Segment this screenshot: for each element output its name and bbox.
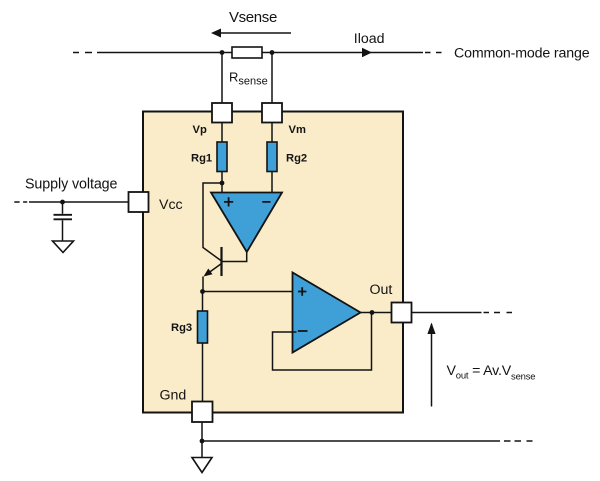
svg-text:Out: Out <box>370 282 393 298</box>
svg-text:Supply voltage: Supply voltage <box>25 177 118 193</box>
svg-text:Vsense: Vsense <box>229 9 277 26</box>
svg-text:Rg2: Rg2 <box>286 153 307 165</box>
svg-text:Rg3: Rg3 <box>171 322 192 334</box>
svg-text:Common-mode range: Common-mode range <box>454 46 590 62</box>
svg-text:Gnd: Gnd <box>160 388 187 404</box>
svg-text:Rg1: Rg1 <box>191 153 212 165</box>
svg-text:Vp: Vp <box>193 124 207 136</box>
svg-text:Vcc: Vcc <box>159 197 183 213</box>
svg-text:Iload: Iload <box>354 31 385 47</box>
svg-text:Vm: Vm <box>289 124 306 136</box>
